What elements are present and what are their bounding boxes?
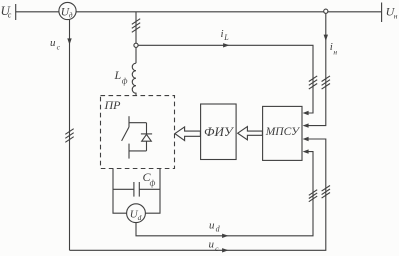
label u_c (top) [50, 37, 61, 51]
terminal Un [381, 3, 383, 23]
svg-text:u: u [209, 239, 215, 251]
arrow: u_c down [67, 38, 71, 44]
wire: feed drop node to inductor [135, 47, 137, 63]
diode in PR (antiparallel) [141, 123, 152, 151]
wire: u_c feedback bottom run [70, 139, 326, 250]
multiwire hash on i_n drop [322, 76, 330, 89]
svg-text:н: н [394, 11, 398, 20]
label PR [104, 98, 122, 112]
hollow arrow FIU to PR [175, 127, 201, 141]
arrow into MPSU (i_L) [303, 111, 309, 115]
wire: u_c sense drop (left vertical) [69, 20, 71, 251]
node: load tap [324, 9, 328, 13]
block FIU [201, 104, 237, 160]
wire: u_d feedback run [136, 152, 313, 236]
svg-text:ф: ф [150, 178, 156, 187]
wire: valve top bus [129, 122, 146, 124]
label u_c (bottom) [209, 239, 220, 253]
svg-text:L: L [114, 68, 122, 82]
switch (controlled valve) in PR [122, 116, 129, 158]
multiwire hash on feed drop [132, 19, 140, 33]
inductor Lf [132, 63, 136, 96]
label i_L [221, 28, 230, 42]
svg-text:d: d [216, 224, 221, 233]
terminal Uc [15, 4, 17, 20]
wire: source rail left [16, 11, 59, 13]
svg-text:МПСУ: МПСУ [265, 126, 300, 138]
wire: rectifier feed drop (upper) [135, 12, 137, 43]
arrow: u_d right [222, 234, 228, 238]
label MPSU [265, 126, 300, 138]
arrow into MPSU (u_d) [303, 149, 309, 153]
capacitor Cf [134, 182, 139, 197]
arrow: u_c right (bottom) [222, 248, 228, 252]
label Lf [114, 68, 128, 85]
svg-text:н: н [333, 48, 337, 57]
multiwire hash on u_d riser [309, 190, 317, 202]
label Un [386, 5, 398, 21]
label FIU [204, 124, 235, 139]
wire: DC bus left drop [113, 169, 127, 214]
svg-text:д: д [69, 11, 73, 20]
wire: valve bottom bus [129, 150, 146, 152]
svg-text:d: d [138, 213, 142, 222]
arrow: i_L right [223, 43, 229, 47]
label i_n [330, 41, 338, 57]
svg-text:ПР: ПР [104, 98, 122, 112]
arrow into MPSU (i_n) [303, 123, 309, 127]
wire: DC bus right drop [145, 169, 160, 214]
multiwire hash on u_c riser [322, 186, 330, 199]
svg-text:i: i [221, 28, 224, 40]
arrow: i_n down [324, 35, 328, 41]
wire: i_n sense drop [308, 13, 326, 125]
svg-text:c: c [8, 11, 12, 20]
multiwire hash on i_L riser [309, 76, 317, 89]
wire: i_L sense run [138, 45, 313, 113]
label Uc [1, 3, 12, 20]
voltage sensor Ud (circle) [59, 2, 76, 19]
svg-text:ФИУ: ФИУ [204, 124, 235, 139]
label u_d [209, 219, 221, 233]
label Ud [61, 6, 73, 19]
svg-text:L: L [223, 33, 229, 42]
label U_d [130, 209, 142, 223]
wire: source rail to load node [76, 11, 324, 13]
svg-text:i: i [330, 41, 333, 53]
svg-text:ф: ф [122, 76, 128, 85]
hollow arrow MPSU to FIU [238, 127, 263, 140]
svg-text:u: u [209, 219, 215, 231]
multiwire hash on u_c drop [65, 129, 73, 143]
svg-text:u: u [50, 37, 56, 49]
wire: rail node to Un terminal [328, 11, 382, 13]
block MPSU [263, 106, 302, 160]
converter block PR (dashed box) [101, 96, 175, 169]
node: i_L tap [134, 43, 138, 47]
svg-text:c: c [215, 244, 219, 253]
label Cf [143, 170, 156, 187]
svg-text:c: c [57, 42, 61, 51]
voltage sensor U_d (circle) [127, 204, 146, 223]
wire: capacitor branch [113, 188, 160, 190]
arrow into MPSU (u_c) [303, 137, 309, 141]
